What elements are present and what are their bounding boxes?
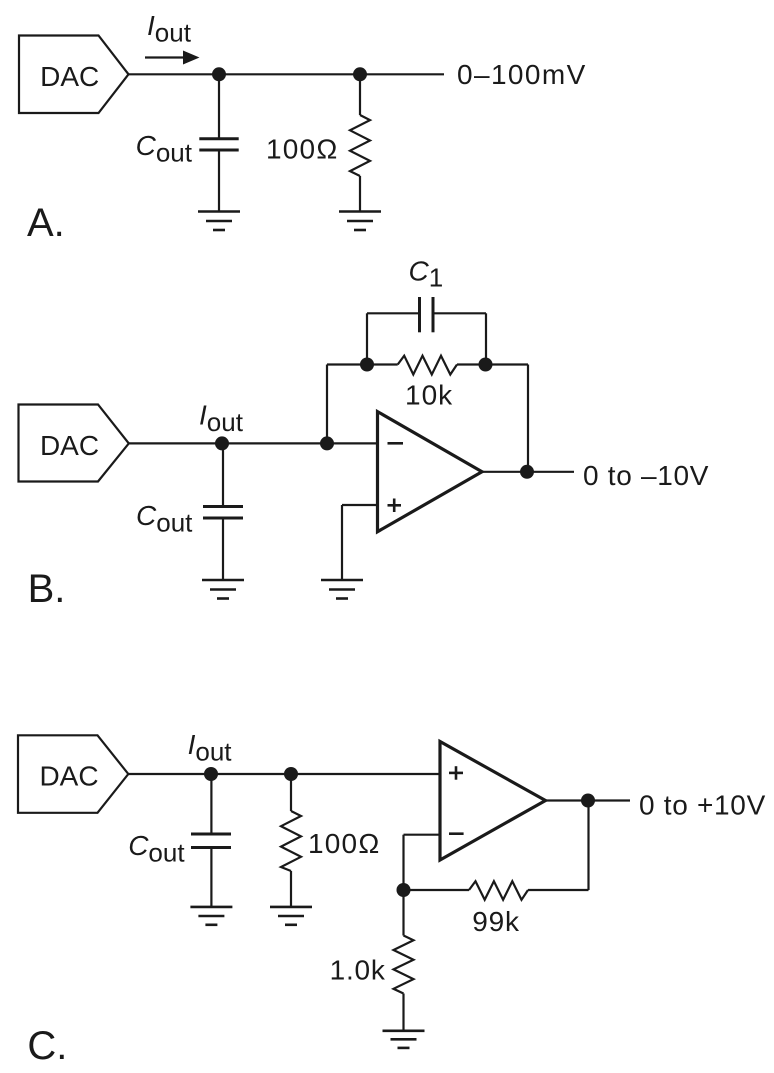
wire: node C1 to node C2 xyxy=(211,773,291,775)
svg-text:10k: 10k xyxy=(405,380,453,411)
wire: feedback rail right segment xyxy=(457,363,528,365)
plus sign (U2 non-inverting input) xyxy=(449,766,463,780)
label Cout (circuit A) xyxy=(136,130,193,168)
junction node B5 (output) xyxy=(520,465,534,479)
label 10k xyxy=(405,380,453,411)
junction node A2 xyxy=(353,67,367,81)
svg-text:Iout: Iout xyxy=(147,10,192,48)
ground (circuit C, under Cout) xyxy=(190,907,232,925)
svg-text:Cout: Cout xyxy=(136,130,193,168)
svg-text:Iout: Iout xyxy=(188,729,233,767)
section label C. xyxy=(27,1024,67,1068)
capacitor Cout (circuit B) xyxy=(203,443,243,580)
wire: feedback rail left segment xyxy=(327,363,398,365)
wire: op-amp B output xyxy=(482,471,574,473)
ground (circuit A, under Cout) xyxy=(198,212,240,231)
wire: DAC B output to node B1 xyxy=(129,442,222,444)
plus sign (U1 non-inverting input) xyxy=(388,499,402,513)
svg-text:0–100mV: 0–100mV xyxy=(457,59,587,90)
svg-text:100Ω: 100Ω xyxy=(308,828,380,859)
label 100ohm (circuit A) xyxy=(266,134,338,165)
wire: node B2 up to feedback rail xyxy=(326,365,328,444)
capacitor C1 (circuit B feedback) xyxy=(367,297,486,365)
junction node B1 xyxy=(215,436,229,450)
label Cout (circuit C) xyxy=(128,830,185,868)
svg-text:0 to +10V: 0 to +10V xyxy=(639,789,766,820)
ground (circuit C, under 1.0k) xyxy=(383,1031,425,1048)
label Iout (circuit C) xyxy=(188,729,233,767)
svg-text:B.: B. xyxy=(28,567,66,611)
section label B. xyxy=(28,567,66,611)
svg-text:0 to –10V: 0 to –10V xyxy=(583,460,709,491)
ground (circuit C, under 100ohm) xyxy=(270,907,312,925)
wire: + input down to ground xyxy=(341,505,343,580)
svg-text:Cout: Cout xyxy=(128,830,185,868)
svg-text:C.: C. xyxy=(27,1024,67,1068)
wire: op-amp C output xyxy=(546,799,631,801)
minus sign (U2 inverting input) xyxy=(449,832,464,835)
resistor 10k (circuit B feedback) xyxy=(398,356,457,375)
svg-text:DAC: DAC xyxy=(40,430,99,461)
wire: feedback rail down to output node xyxy=(527,365,529,472)
wire: node B2 to op-amp inverting input xyxy=(327,442,378,444)
wire: inverting input down to node C3 xyxy=(402,835,404,890)
label 100ohm (circuit C) xyxy=(308,828,380,859)
wire: feedback vertical up to output node xyxy=(587,801,589,891)
svg-text:Iout: Iout xyxy=(199,400,244,438)
DAC symbol (circuit B) xyxy=(19,405,129,482)
label C1 xyxy=(409,256,444,293)
wire: node B1 to node B2 xyxy=(222,442,327,444)
label output 0-100mV (circuit A) xyxy=(457,59,587,90)
resistor 100ohm (circuit A) xyxy=(350,74,370,211)
current arrow Iout (circuit A) xyxy=(145,51,200,65)
op-amp U1 (circuit B) xyxy=(378,412,483,532)
DAC symbol (circuit A) xyxy=(19,36,129,114)
wire: 99k to output vertical xyxy=(528,889,589,891)
svg-text:DAC: DAC xyxy=(40,61,99,92)
junction node A1 xyxy=(212,67,226,81)
svg-text:100Ω: 100Ω xyxy=(266,134,338,165)
junction node C3 xyxy=(397,883,411,897)
label 1.0k xyxy=(330,954,386,985)
label output 0 to -10V xyxy=(583,460,709,491)
svg-text:Cout: Cout xyxy=(136,500,193,538)
svg-text:99k: 99k xyxy=(472,906,520,937)
label output 0 to +10V xyxy=(639,789,766,820)
label Cout (circuit B) xyxy=(136,500,193,538)
wire: node A2 to output terminal xyxy=(360,73,444,75)
svg-text:A.: A. xyxy=(27,201,65,245)
wire: node C2 to op-amp + input xyxy=(291,773,440,775)
capacitor Cout (circuit C) xyxy=(191,774,231,907)
capacitor Cout (circuit A) xyxy=(199,74,238,211)
svg-text:1.0k: 1.0k xyxy=(330,954,386,985)
minus sign (U1 inverting input) xyxy=(388,442,404,445)
section label A. xyxy=(27,201,65,245)
junction node C2 xyxy=(284,767,298,781)
resistor 1.0k (circuit C) xyxy=(394,890,414,1031)
ground (circuit A, under 100ohm) xyxy=(339,212,381,231)
DAC symbol (circuit C) xyxy=(18,735,128,813)
junction node C1 xyxy=(204,767,218,781)
svg-text:C1: C1 xyxy=(409,256,444,293)
junction node B2 (inverting input node) xyxy=(320,436,334,450)
wire: node A1 to node A2 xyxy=(219,73,360,75)
junction node C4 (output) xyxy=(581,794,595,808)
wire: DAC A output to node A1 xyxy=(129,73,220,75)
ground (circuit B, under Cout) xyxy=(202,580,244,599)
label Iout (circuit B) xyxy=(199,400,244,438)
resistor 99k (circuit C feedback) xyxy=(469,881,528,900)
wire: DAC C output to node C1 xyxy=(128,773,211,775)
ground (circuit B, op-amp + input) xyxy=(321,580,363,599)
label 99k xyxy=(472,906,520,937)
wire: op-amp C inverting input xyxy=(404,834,441,836)
junction node B4 (feedback right) xyxy=(479,358,493,372)
wire: op-amp + input xyxy=(342,504,378,506)
op-amp U2 (circuit C) xyxy=(440,742,546,861)
wire: node C3 to 99k xyxy=(404,889,470,891)
svg-text:DAC: DAC xyxy=(39,761,98,792)
junction node B3 (feedback left) xyxy=(360,358,374,372)
resistor 100ohm (circuit C) xyxy=(281,774,301,907)
label Iout (circuit A) xyxy=(147,10,192,48)
